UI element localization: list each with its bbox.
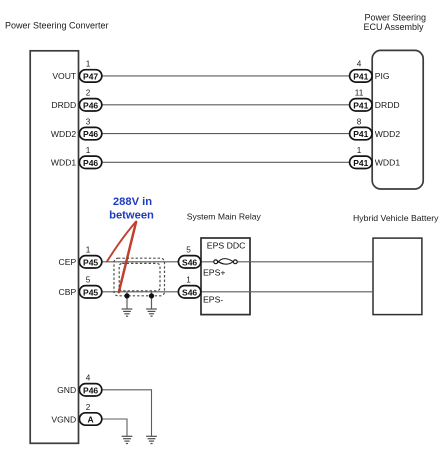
svg-text:P41: P41: [353, 100, 368, 110]
pin WDD2 P46 pin3: [51, 117, 102, 139]
svg-text:P46: P46: [83, 129, 98, 139]
svg-text:Power Steering: Power Steering: [365, 13, 427, 23]
svg-text:VGND: VGND: [51, 414, 76, 424]
dashed box outer 288V zone: [114, 258, 165, 296]
svg-text:4: 4: [86, 374, 91, 383]
wire VGND to ground 4: [96, 419, 127, 436]
svg-text:WDD1: WDD1: [375, 158, 401, 168]
relay contact: [214, 259, 237, 264]
svg-text:CBP: CBP: [59, 287, 77, 297]
svg-text:3: 3: [86, 117, 91, 126]
svg-text:WDD2: WDD2: [375, 129, 401, 139]
svg-text:P47: P47: [83, 71, 98, 81]
pin CEP P45 pin1: [59, 246, 102, 268]
svg-text:11: 11: [355, 89, 364, 98]
svg-text:2: 2: [86, 89, 91, 98]
wire VOUT to PIG: [96, 75, 356, 77]
svg-text:S46: S46: [182, 287, 197, 297]
pin WDD1 P41 pin1: [350, 146, 401, 168]
label 288V in between: [109, 196, 154, 222]
System Main Relay box EPS DDC: [201, 238, 250, 315]
label Power Steering ECU Assembly: [364, 13, 427, 33]
svg-text:5: 5: [86, 276, 91, 285]
svg-text:P46: P46: [83, 158, 98, 168]
svg-text:288V in: 288V in: [113, 196, 152, 208]
pin DRDD P41 pin11: [350, 89, 400, 111]
svg-text:between: between: [109, 210, 154, 222]
svg-text:P46: P46: [83, 385, 98, 395]
ground G2: [146, 309, 157, 316]
ground G4: [122, 436, 133, 443]
Power Steering ECU Assembly box: [372, 50, 423, 189]
Power Steering Converter box: [30, 51, 78, 444]
wire CBP junction to ground 2: [151, 292, 153, 309]
pin S46 pin5 EPS+: [178, 246, 200, 268]
pin GND P46 pin4: [57, 374, 102, 396]
svg-text:P41: P41: [353, 158, 368, 168]
svg-text:1: 1: [86, 60, 91, 69]
pin VOUT P47 pin1: [52, 60, 101, 82]
svg-text:WDD1: WDD1: [51, 158, 77, 168]
wire DRDD to DRDD: [96, 104, 356, 106]
svg-text:System Main Relay: System Main Relay: [187, 212, 262, 222]
svg-text:Power Steering Converter: Power Steering Converter: [5, 20, 109, 30]
callout arrow to CBP wire: [119, 222, 136, 292]
wire WDD2 to WDD2: [96, 133, 356, 135]
svg-text:P41: P41: [353, 129, 368, 139]
callout arrow to CEP wire: [107, 222, 136, 262]
wire WDD1 to WDD1: [96, 161, 356, 163]
pin CBP P45 pin5: [59, 276, 102, 298]
svg-text:WDD2: WDD2: [51, 129, 77, 139]
svg-text:EPS DDC: EPS DDC: [207, 241, 246, 251]
svg-text:2: 2: [86, 403, 91, 412]
junction dot 1: [124, 293, 129, 298]
svg-text:S46: S46: [182, 257, 197, 267]
Hybrid Vehicle Battery box: [373, 238, 422, 315]
wire relay contact to battery EPS+: [237, 261, 373, 263]
svg-text:EPS+: EPS+: [203, 268, 225, 278]
svg-text:P45: P45: [83, 287, 98, 297]
dashed box inner 288V zone: [119, 263, 160, 290]
ground G3: [146, 436, 157, 443]
svg-text:ECU Assembly: ECU Assembly: [364, 22, 425, 32]
svg-text:PIG: PIG: [375, 71, 390, 81]
wire CBP to battery EPS-: [96, 291, 373, 293]
svg-text:DRDD: DRDD: [375, 100, 400, 110]
wire CEP to relay contact: [96, 261, 214, 263]
svg-text:Hybrid Vehicle Battery: Hybrid Vehicle Battery: [353, 213, 439, 223]
svg-text:4: 4: [357, 60, 362, 69]
pin WDD2 P41 pin8: [350, 117, 401, 139]
svg-text:DRDD: DRDD: [51, 100, 76, 110]
svg-text:EPS-: EPS-: [203, 295, 223, 305]
svg-text:GND: GND: [57, 385, 76, 395]
pin WDD1 P46 pin1: [51, 146, 102, 168]
svg-text:P45: P45: [83, 257, 98, 267]
pin VGND A pin2: [51, 403, 101, 425]
svg-text:1: 1: [86, 146, 91, 155]
wire CBP junction to ground 1: [126, 292, 128, 309]
pin PIG P41 pin4: [350, 60, 390, 82]
svg-text:1: 1: [357, 146, 362, 155]
svg-text:CEP: CEP: [59, 257, 77, 267]
svg-text:VOUT: VOUT: [52, 71, 77, 81]
junction dot 2: [149, 293, 154, 298]
wire GND to ground 3: [96, 390, 152, 436]
ground G1: [122, 309, 133, 316]
svg-text:1: 1: [86, 246, 91, 255]
svg-text:8: 8: [357, 117, 362, 126]
svg-text:A: A: [88, 415, 94, 425]
svg-text:P46: P46: [83, 100, 98, 110]
svg-text:5: 5: [186, 246, 191, 255]
svg-text:1: 1: [186, 276, 191, 285]
pin S46 pin1 EPS-: [178, 276, 200, 298]
svg-text:P41: P41: [353, 71, 368, 81]
pin DRDD P46 pin2: [51, 89, 101, 111]
